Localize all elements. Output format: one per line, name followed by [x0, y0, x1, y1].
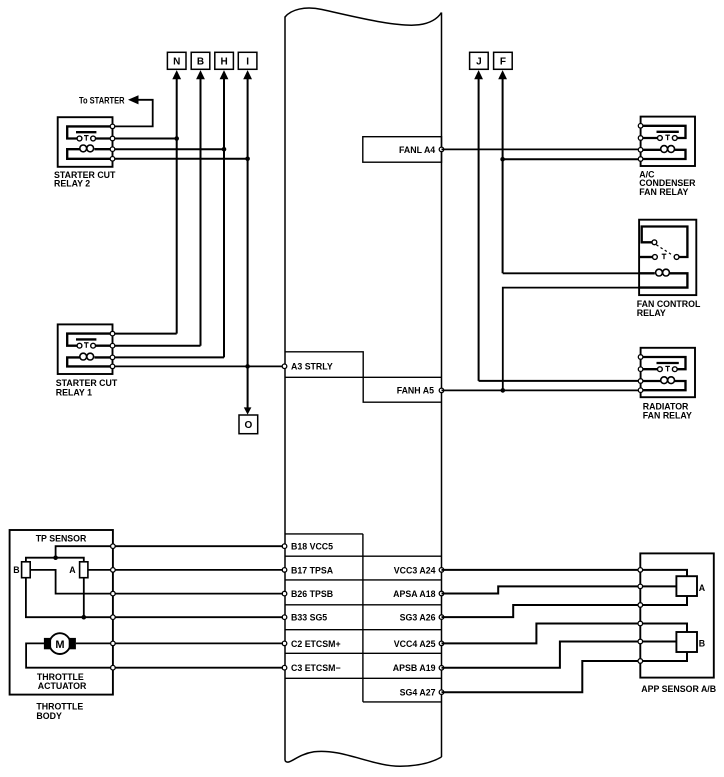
svg-text:F: F: [500, 56, 506, 67]
svg-text:A: A: [69, 565, 76, 575]
throttle body pins: [111, 544, 116, 549]
starter cut relay 1 coil: [94, 356, 112, 358]
starter cut relay 2 coil: [94, 148, 112, 150]
svg-text:C3 ETCSM−: C3 ETCSM−: [291, 663, 341, 673]
svg-text:J: J: [476, 56, 482, 67]
wire I down arrow into connector box O: [244, 407, 252, 414]
wire ETCSM- from motor to ECM C3: [26, 643, 283, 667]
pin B18 VCC5: [282, 544, 287, 549]
svg-text:RELAY: RELAY: [637, 308, 666, 318]
svg-text:VCC3 A24: VCC3 A24: [394, 565, 436, 575]
throttle actuator motor M: [50, 633, 71, 654]
svg-text:A: A: [699, 583, 706, 593]
pin APSB A19: [439, 666, 444, 671]
radiator fan relay pins: [638, 355, 643, 360]
TP sensor resistor B: [22, 562, 31, 578]
ECM pin box FANL A4: [363, 137, 442, 163]
wire resistor A bottom to SG5: [83, 578, 85, 618]
TP sensor top bar wire: [26, 558, 84, 562]
junction dot VCC5 / top bar: [53, 555, 58, 560]
wire H line with up arrow: [220, 70, 229, 79]
wire B line with up arrow: [196, 70, 205, 79]
svg-text:THROTTLE: THROTTLE: [36, 702, 83, 712]
wire N line with up arrow: [172, 70, 181, 79]
To STARTER arrowhead: [128, 95, 139, 104]
svg-text:O: O: [244, 420, 252, 431]
junction dot fan control return / FANH wire: [501, 388, 506, 393]
wire FANL A4 to A/C condenser fan relay pin 3: [442, 148, 641, 150]
wire F line with up arrow: [498, 70, 507, 79]
radiator fan relay coil: [641, 380, 661, 382]
pin C2 ETCSM+: [282, 641, 287, 646]
svg-text:A3 STRLY: A3 STRLY: [291, 361, 333, 371]
ECM/PCM body outline bottom wavy edge: [285, 751, 442, 766]
A/C condenser fan relay box: [641, 117, 695, 166]
svg-text:FAN RELAY: FAN RELAY: [639, 187, 688, 197]
wire N to starter cut relay 1 pin 1: [113, 333, 177, 335]
pin SG4 A27: [439, 690, 444, 695]
connector box B: [191, 52, 210, 69]
fan control relay lower contacts: [639, 256, 652, 258]
svg-text:FAN RELAY: FAN RELAY: [643, 410, 692, 420]
svg-text:APSB A19: APSB A19: [393, 663, 436, 673]
connector box I: [238, 52, 257, 69]
svg-text:B17 TPSA: B17 TPSA: [291, 565, 334, 575]
pin C3 ETCSM−: [282, 665, 287, 670]
wire B to starter cut relay 1 pin 2: [113, 345, 201, 347]
starter cut relay 1 box: [58, 324, 113, 374]
svg-text:B: B: [13, 565, 19, 575]
svg-text:B: B: [197, 56, 204, 67]
A/C condenser fan relay contact points: [658, 136, 663, 141]
ECM pin box A3 STRLY: [285, 352, 442, 402]
svg-text:FANL A4: FANL A4: [399, 145, 435, 155]
ECM/PCM body outline top wavy edge: [285, 8, 442, 25]
svg-text:FANH A5: FANH A5: [397, 385, 434, 395]
radiator fan relay box: [641, 348, 695, 397]
wire J line with up arrow to radiator fan relay pin 3: [474, 70, 483, 79]
starter cut relay 2 box: [58, 117, 113, 167]
fan control relay box: [639, 220, 696, 295]
svg-text:B33 SG5: B33 SG5: [291, 613, 327, 623]
wire starter cut relay 2 pin 4 to I line: [113, 158, 248, 160]
wire SG4 to APP sensor pin 6: [442, 661, 641, 692]
connector box F: [494, 52, 513, 69]
wire VCC5 from top bar to ECM B18: [56, 546, 283, 558]
pin A3 STRLY: [282, 364, 287, 369]
fan control relay internal wiring: [642, 227, 688, 258]
APP sensor internal wiring: [640, 570, 687, 576]
wire APSA to APP sensor pin 2: [442, 586, 641, 593]
svg-text:B18 VCC5: B18 VCC5: [291, 542, 333, 552]
wire SG3 to APP sensor pin 3: [442, 605, 641, 617]
connector box O: [239, 415, 258, 434]
wire VCC4 to APP sensor pin 4: [442, 624, 641, 644]
APP sensor pins: [638, 568, 643, 573]
pin VCC4 A25: [439, 641, 444, 646]
A/C condenser fan relay internal wiring: [641, 126, 686, 138]
pin SG3 A26: [439, 615, 444, 620]
svg-text:B26 TPSB: B26 TPSB: [291, 589, 333, 599]
wire APSB to APP sensor pin 5: [442, 642, 641, 668]
svg-text:STARTER CUT: STARTER CUT: [56, 378, 118, 388]
starter cut relay 1 pins: [110, 331, 115, 336]
radiator fan relay internal wiring: [641, 357, 686, 369]
junction dot relay 1 pin 4 / I line: [245, 364, 250, 369]
svg-text:APP SENSOR A/B: APP SENSOR A/B: [641, 684, 716, 694]
svg-text:B: B: [699, 638, 705, 648]
svg-text:H: H: [220, 56, 227, 67]
A/C condenser fan relay pins: [638, 124, 643, 129]
radiator fan relay contact points: [658, 367, 663, 372]
wire I line with up arrow: [243, 70, 252, 79]
wire H to starter cut relay 1 pin 3: [113, 356, 225, 358]
svg-text:To STARTER: To STARTER: [79, 96, 125, 106]
TP sensor resistor A: [80, 562, 88, 578]
svg-text:TP SENSOR: TP SENSOR: [36, 533, 87, 543]
APP sensor resistor A: [676, 576, 697, 596]
connector box H: [215, 52, 234, 69]
starter cut relay 1 contact points: [77, 343, 82, 348]
wire TPSA from resistor A to ECM B17: [88, 569, 283, 571]
svg-text:RELAY 2: RELAY 2: [54, 179, 90, 189]
ECM/PCM body outline left edge: [284, 17, 286, 761]
wire FANH A5 to radiator fan relay pin 4: [442, 389, 641, 391]
svg-text:RELAY 1: RELAY 1: [56, 388, 92, 398]
svg-text:SG4 A27: SG4 A27: [400, 688, 436, 698]
svg-text:N: N: [173, 56, 180, 67]
pin FANL A4: [439, 147, 444, 152]
pin B33 SG5: [282, 615, 287, 620]
connector box N: [167, 52, 186, 69]
wire F branch to A/C condenser fan relay pin 4: [503, 158, 641, 160]
starter cut relay 1 internal wiring: [67, 334, 112, 346]
svg-text:APSA A18: APSA A18: [393, 589, 435, 599]
junction dot F line / A/C relay branch: [500, 157, 505, 162]
ECM lower pin box grid: [285, 533, 363, 535]
A/C condenser fan relay coil: [641, 149, 661, 151]
fan control relay upper contact: [652, 240, 657, 245]
wire SG5 from resistor B bottom to ECM B33: [26, 578, 283, 618]
svg-text:SG3 A26: SG3 A26: [400, 613, 436, 623]
junction dot resistor A / SG5 wire: [82, 615, 87, 620]
svg-text:VCC4 A25: VCC4 A25: [394, 639, 436, 649]
starter cut relay 2 pins: [110, 124, 115, 129]
junction dot relay 2 pin 2 / N line: [174, 136, 179, 141]
svg-text:ACTUATOR: ACTUATOR: [38, 681, 87, 691]
svg-text:C2 ETCSM+: C2 ETCSM+: [291, 639, 341, 649]
APP sensor box: [640, 553, 714, 677]
pin FANH A5: [439, 388, 444, 393]
wire starter cut relay 1 pin 4 to ECM A3 STRLY: [113, 365, 284, 367]
svg-text:M: M: [55, 639, 64, 651]
svg-text:BODY: BODY: [36, 711, 62, 721]
wire To STARTER from relay 2 pin 1: [113, 100, 153, 127]
pin B17 TPSA: [282, 568, 287, 573]
wire TPSB from resistor B to ECM B26: [30, 570, 283, 594]
wire starter cut relay 2 pin 2 to N line: [113, 138, 177, 140]
starter cut relay 2 contact points: [77, 136, 82, 141]
fan control relay coil: [639, 272, 655, 274]
fan control relay switch dashed line: [656, 245, 671, 254]
APP sensor resistor B: [676, 632, 697, 652]
starter cut relay 2 internal wiring: [67, 126, 112, 138]
wire F line to fan control relay coil: [503, 272, 639, 274]
pin APSA A18: [439, 591, 444, 596]
pin B26 TPSB: [282, 591, 287, 596]
wire VCC3 to APP sensor pin 1: [442, 569, 641, 571]
wire ETCSM+ from motor to ECM C2: [76, 642, 283, 644]
ECM/PCM body outline right edge: [441, 13, 443, 758]
throttle body box: [10, 530, 113, 695]
pin VCC3 A24: [439, 568, 444, 573]
connector box J: [470, 52, 489, 69]
junction dot relay 2 pin 3 / H line: [222, 147, 227, 152]
svg-text:I: I: [246, 56, 249, 67]
wire fan control relay coil return to FANH line: [503, 288, 639, 391]
junction dot relay 2 pin 4 / I line: [245, 157, 250, 162]
wire starter cut relay 2 pin 3 to H line: [113, 148, 225, 150]
